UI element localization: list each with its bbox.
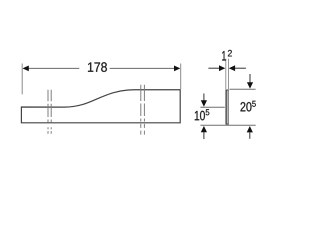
plate cross-section (end view): [226, 90, 229, 124]
dimension 178 arrow left: [23, 66, 29, 72]
dimension 20-5 up arrow: [247, 126, 253, 132]
dimension 10-5 up arrow: [201, 126, 207, 132]
dimension 178 line left segment: [28, 67, 80, 69]
dimension 178 label: [88, 62, 107, 72]
dimension 178 arrow right: [174, 66, 180, 72]
dimension 178 extension line left: [21, 64, 23, 95]
dimension 1-2 extension line right: [228, 59, 230, 90]
dimension 1-2 left arrow and tail: [208, 67, 219, 69]
dimension 10-5 label: [195, 111, 205, 121]
dimension 10-5 down arrow: [203, 94, 205, 102]
dimension 20-5 top extension line: [230, 88, 256, 90]
dimension 20-5 down arrow: [249, 74, 251, 83]
dimension 178 line right segment: [110, 67, 175, 69]
dimension 20-5 label: [241, 102, 252, 111]
dimension 1-2 right arrow and tail: [235, 67, 246, 69]
centerline pair left (fixing position): [48, 90, 51, 135]
centerline pair right (fixing position): [141, 85, 145, 135]
dimension 1-2 extension line left: [225, 59, 227, 90]
profile outline (side view of panel): [21, 90, 180, 123]
dimension 178 extension line right: [180, 64, 182, 90]
dimension 1-2 label: [222, 51, 226, 61]
dimension 10-5 top extension line: [200, 106, 224, 108]
bottom extension line (shared 10-5 / 20-5): [200, 124, 255, 126]
